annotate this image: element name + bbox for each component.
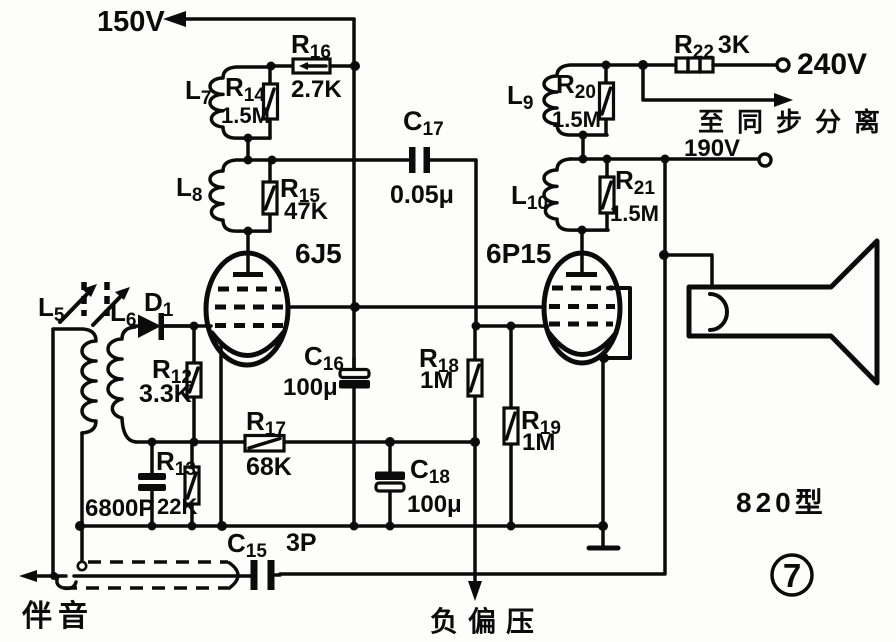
svg-text:3P: 3P	[286, 529, 317, 557]
svg-text:3.3K: 3.3K	[139, 380, 192, 408]
node D1 grid junction	[190, 322, 199, 331]
svg-text:6800P: 6800P	[85, 495, 154, 522]
node cathode hook junction	[599, 353, 609, 363]
svg-text:L8: L8	[176, 172, 202, 206]
svg-text:L7: L7	[185, 75, 211, 109]
node speaker junction	[659, 250, 669, 260]
capacitor C13 6800P	[138, 442, 166, 526]
wire to speaker	[664, 255, 712, 287]
node A junction dots top-left	[267, 61, 361, 71]
tube U1 cathode lead	[219, 347, 223, 526]
wire screen line 6J5 to 6P15	[288, 305, 545, 309]
node L7 bottom junction	[244, 134, 253, 161]
node 190V junctions	[579, 155, 670, 164]
node L9 junctions	[579, 60, 649, 159]
tube U1 grid rows	[215, 289, 283, 326]
svg-text:1M: 1M	[420, 367, 453, 394]
svg-text:C18: C18	[410, 454, 450, 488]
svg-text:L9: L9	[507, 80, 533, 114]
svg-text:1.5M: 1.5M	[610, 201, 659, 226]
svg-text:D1: D1	[144, 287, 174, 321]
svg-text:R16: R16	[291, 29, 331, 63]
resistor R13	[185, 442, 199, 526]
inductor L5	[53, 329, 96, 562]
tube U1 cathode arc	[212, 333, 283, 356]
wire plate tap to C17	[272, 158, 410, 162]
svg-text:6P15: 6P15	[486, 238, 551, 269]
tube U1 6J5 envelope	[206, 253, 288, 365]
resistor R22	[676, 58, 777, 72]
svg-text:L10: L10	[511, 180, 548, 214]
svg-text:伴音: 伴音	[21, 600, 94, 633]
svg-text:100μ: 100μ	[407, 491, 462, 518]
svg-text:820型: 820型	[736, 487, 827, 518]
resistor R18	[468, 326, 482, 442]
wire coax center conductor	[74, 574, 251, 578]
resistor R15	[263, 160, 277, 231]
svg-text:C15: C15	[227, 528, 267, 562]
svg-text:R223K: R223K	[674, 29, 750, 63]
svg-text:1.5M: 1.5M	[221, 103, 270, 128]
svg-text:负偏压: 负偏压	[430, 606, 544, 637]
resistor R19	[504, 326, 518, 526]
terminal 240V	[777, 48, 867, 81]
figure number 7 circled	[772, 555, 812, 595]
node grid junction dots	[472, 322, 516, 331]
wire 190V line	[570, 157, 759, 161]
tube U2 anode	[566, 253, 597, 277]
node screen rail junction	[350, 302, 360, 312]
wire ground bus	[80, 524, 603, 528]
svg-text:2.7K: 2.7K	[291, 76, 342, 103]
svg-text:240V: 240V	[797, 48, 867, 81]
svg-text:190V: 190V	[684, 135, 740, 162]
svg-text:C17: C17	[403, 106, 444, 140]
inductor L8	[210, 160, 272, 231]
coax cable shield dashed	[64, 562, 238, 589]
node 150V supply arrow	[163, 11, 354, 27]
arrow sound input	[19, 570, 66, 582]
diode D1	[134, 313, 194, 340]
svg-text:0.05μ: 0.05μ	[390, 181, 454, 209]
wire sync takeoff arrow	[643, 65, 793, 107]
svg-text:7: 7	[783, 557, 801, 594]
wire L5 top feed vertical	[51, 330, 55, 576]
ground	[589, 521, 618, 548]
node L8 top junction dots	[244, 156, 277, 165]
resistor R21	[600, 159, 614, 230]
speaker LS	[689, 241, 877, 383]
resistor R20	[600, 65, 614, 135]
wire grid line from D1	[164, 324, 211, 328]
wire 150V rail vertical	[352, 19, 356, 369]
resistor R16	[271, 59, 354, 73]
svg-text:R21: R21	[615, 165, 655, 199]
capacitor C15	[251, 560, 281, 590]
wire AGC line y442	[136, 440, 475, 444]
tube U2 suppressor hook	[606, 288, 630, 358]
arrow tuning L6	[93, 287, 130, 325]
resistor R14	[264, 67, 278, 138]
svg-text:C16: C16	[304, 341, 344, 375]
svg-text:R14: R14	[225, 72, 265, 106]
capacitor C17	[409, 147, 476, 173]
tube U2 cathode arc	[549, 333, 616, 355]
wire bias line	[468, 442, 482, 601]
svg-text:68K: 68K	[246, 453, 292, 481]
resistor R12	[187, 326, 201, 442]
inductor L7	[210, 67, 271, 138]
svg-text:至同步分离: 至同步分离	[698, 107, 893, 137]
node AGC junctions	[148, 437, 481, 447]
terminal shield circle	[78, 562, 86, 570]
tube U1 anode	[233, 254, 263, 277]
svg-text:R20: R20	[556, 69, 596, 103]
core L5 dashed	[81, 282, 87, 316]
node L10 bottom junction	[578, 226, 587, 254]
svg-text:22K: 22K	[157, 494, 197, 519]
wire 150V rail below C16	[352, 389, 356, 526]
capacitor C18	[375, 442, 405, 526]
inductor L9	[544, 65, 676, 135]
svg-text:47K: 47K	[284, 198, 329, 225]
node L8 bottom junction	[244, 227, 253, 255]
svg-text:6J5: 6J5	[295, 238, 342, 269]
tube U2 grid rows	[549, 288, 615, 324]
wire plate rail right	[280, 159, 665, 574]
svg-text:1M: 1M	[522, 429, 555, 456]
terminal 190V	[684, 135, 771, 166]
inductor L10	[544, 159, 608, 230]
wire C17 to 6P15 grid	[476, 160, 545, 326]
tube U2 6P15 envelope	[544, 253, 620, 363]
inductor L6	[108, 327, 136, 442]
core L6 dashed	[104, 282, 110, 316]
svg-text:150V: 150V	[97, 6, 165, 38]
svg-text:R17: R17	[246, 406, 286, 440]
resistor R17	[245, 436, 284, 452]
arrow tuning L5	[60, 284, 97, 322]
svg-text:100μ: 100μ	[283, 374, 338, 401]
node bus junctions	[75, 521, 516, 531]
tube U2 cathode lead	[601, 358, 605, 526]
svg-text:1.5M: 1.5M	[552, 107, 601, 132]
wire coax pigtail curl	[57, 576, 76, 588]
capacitor C16	[339, 358, 370, 389]
